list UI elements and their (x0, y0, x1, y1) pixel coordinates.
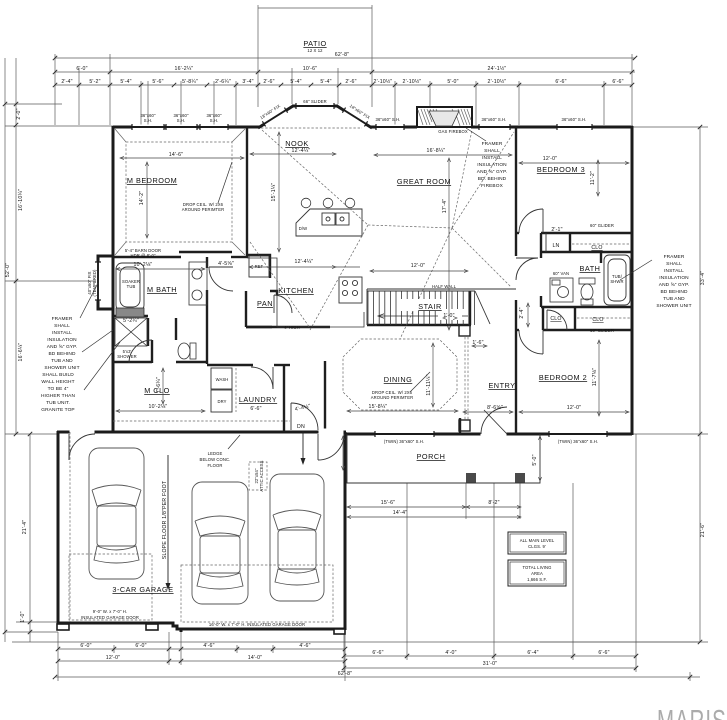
svg-text:8'-6⅝": 8'-6⅝" (487, 405, 503, 411)
bedroom3 window top (557, 125, 592, 130)
soaker tub (116, 263, 144, 311)
wall laundry top (207, 364, 253, 366)
leader drop ceil dining (410, 372, 430, 392)
svg-text:TUB AND: TUB AND (663, 296, 685, 302)
svg-text:DINING: DINING (384, 375, 413, 384)
M bedroom window 1 (132, 125, 164, 130)
svg-text:62'-8": 62'-8" (335, 52, 349, 58)
svg-text:33'-4": 33'-4" (700, 271, 706, 285)
svg-text:GREAT ROOM: GREAT ROOM (397, 177, 451, 186)
svg-text:BATH: BATH (580, 264, 601, 273)
porch slab edge (347, 434, 540, 483)
M bedroom tray corner diagonals (115, 129, 245, 255)
svg-text:4'-6": 4'-6" (299, 643, 310, 649)
hall/bedroom wing west wall (515, 127, 517, 256)
svg-text:12'-0": 12'-0" (543, 156, 557, 162)
svg-text:3'-4": 3'-4" (242, 79, 253, 85)
leader drop ceil M bedroom (218, 162, 232, 203)
svg-text:21'-4": 21'-4" (22, 520, 28, 534)
svg-text:INSTALL: INSTALL (664, 268, 684, 274)
wall M bath east (206, 257, 208, 268)
LN closet west wall (540, 233, 542, 252)
M bath vanity counter hatched (116, 308, 144, 317)
svg-text:FIREBOX: FIREBOX (481, 183, 503, 189)
garage bottom wall left section (57, 622, 170, 625)
laundry/mudroom bottom wall (garage top) (113, 431, 346, 434)
svg-text:FRAMER: FRAMER (52, 316, 73, 322)
svg-text:7'-6¼": 7'-6¼" (156, 377, 162, 393)
nook bay threshold dashed (261, 127, 362, 129)
svg-text:REF: REF (255, 264, 264, 269)
closet row1 front wall (541, 251, 632, 253)
svg-text:11'-7⅛": 11'-7⅛" (592, 368, 598, 387)
LN door arc (545, 233, 547, 252)
washer box (211, 368, 232, 389)
svg-text:24'-1½": 24'-1½" (488, 65, 507, 72)
wall M clo top (113, 361, 152, 363)
M clo door arc (129, 340, 152, 363)
svg-text:5'-4": 5'-4" (290, 79, 301, 85)
top extension verticals (54, 54, 56, 125)
top dim line tier3 (55, 84, 632, 86)
porch post left (466, 473, 476, 483)
car 3 (270, 474, 324, 601)
dining ceiling octagon (343, 339, 457, 410)
bottom wall of house (porch side) (345, 433, 632, 436)
svg-text:2'-6": 2'-6" (263, 79, 274, 85)
leader left note to tub window (80, 283, 98, 318)
fireplace bump-out hatched (417, 107, 472, 127)
dining twin window (bottom wall) (375, 432, 434, 437)
svg-text:TUB UNIT.: TUB UNIT. (46, 400, 70, 406)
wall openings (door gaps) (70, 429, 507, 438)
wall M bedroom / kitchen (246, 127, 248, 258)
top dim line 62'-8" (55, 57, 635, 59)
svg-text:HALF WALL: HALF WALL (432, 284, 457, 289)
garage left wall (57, 431, 60, 624)
top wall right section (471, 126, 633, 129)
bath north wall piece (540, 252, 542, 258)
patio right edge (371, 5, 373, 107)
slope floor arrow (166, 455, 171, 590)
svg-text:6'-6": 6'-6" (250, 406, 261, 412)
svg-text:9'-0" W. x 7'-0" H.: 9'-0" W. x 7'-0" H. (93, 609, 127, 614)
svg-text:AROUND PERIMTER: AROUND PERIMTER (371, 395, 413, 400)
right dim vertical 21'-6" (699, 434, 701, 642)
great room ridge lines (262, 130, 368, 225)
bath south wall (541, 306, 632, 308)
svg-text:GAS FIREBOX: GAS FIREBOX (438, 129, 468, 134)
bedroom3 south wall (516, 232, 519, 234)
right horizontal extension lines (632, 126, 708, 128)
svg-text:S.H.: S.H. (144, 118, 153, 123)
svg-text:6'-6": 6'-6" (598, 650, 609, 656)
right dim vertical 33'-4" (699, 127, 701, 434)
framer note firebox (477, 141, 507, 189)
kitchen half wall (246, 326, 330, 328)
porch post right (515, 473, 525, 483)
svg-text:2'-4": 2'-4" (519, 307, 525, 318)
svg-text:14'-2": 14'-2" (139, 191, 145, 205)
svg-text:14'-0": 14'-0" (248, 655, 262, 661)
svg-text:36"x60" S.H.: 36"x60" S.H. (376, 117, 401, 122)
entry column square bottom (459, 420, 470, 431)
top dim line tier2 (55, 71, 635, 73)
svg-text:AND ⅝" GYP.: AND ⅝" GYP. (659, 282, 689, 288)
svg-text:5'-2¼": 5'-2¼" (123, 318, 139, 324)
svg-text:60" GLIDER: 60" GLIDER (590, 328, 614, 333)
svg-text:INSULATED GARAGE DOOR: INSULATED GARAGE DOOR (81, 615, 139, 620)
garage house door leaf + arc (317, 434, 319, 460)
svg-text:LAUNDRY: LAUNDRY (239, 395, 277, 404)
svg-text:DN: DN (297, 424, 305, 430)
M bath door leaf + arc (209, 266, 233, 268)
svg-text:ENTRY: ENTRY (488, 381, 515, 390)
pantry door leaf + arc (273, 295, 275, 313)
svg-text:MARIS: MARIS (657, 703, 727, 720)
svg-text:BD. BEHIND: BD. BEHIND (478, 176, 507, 182)
pantry bottom wall (246, 326, 272, 328)
svg-text:2'-1": 2'-1" (551, 227, 562, 233)
wall toilet nook (175, 318, 177, 340)
bottom garage dim tier2 (58, 660, 345, 662)
garage door dashed rect left (69, 554, 152, 620)
svg-text:SHOWER: SHOWER (117, 354, 136, 359)
wall hall east / pantry west (245, 291, 247, 327)
stair rail diagonal (475, 291, 490, 324)
dryer box (211, 390, 232, 412)
svg-text:CLO: CLO (591, 245, 602, 251)
svg-text:12 X 12: 12 X 12 (307, 48, 323, 53)
svg-text:4'-5⅝": 4'-5⅝" (218, 261, 234, 267)
patio left edge (257, 5, 259, 107)
svg-text:60" GLIDER: 60" GLIDER (590, 223, 614, 228)
svg-text:INSTALL: INSTALL (52, 330, 72, 336)
bottom overall dim 62'-8" (55, 676, 700, 678)
svg-text:5'-0": 5'-0" (532, 454, 538, 465)
svg-text:16'-0" W. x 7'-0" H. INSULATED: 16'-0" W. x 7'-0" H. INSULATED GARAGE DO… (209, 622, 305, 627)
svg-text:S.H.: S.H. (177, 118, 186, 123)
nook bay right angled wall (337, 106, 372, 128)
svg-text:WASH: WASH (216, 377, 229, 382)
stair south wall (367, 324, 471, 326)
svg-text:SHWR: SHWR (610, 279, 623, 284)
garage service door leaf + arc (68, 434, 70, 460)
laundry door leaf + arc (272, 367, 274, 389)
garage door dashed rect right (181, 565, 333, 622)
bath west wall (540, 296, 542, 307)
kitchen island (296, 209, 362, 236)
svg-text:16'-10¼": 16'-10¼" (18, 189, 24, 211)
svg-text:1'-0": 1'-0" (20, 611, 26, 622)
svg-text:HDR @ 8'-0": HDR @ 8'-0" (130, 253, 156, 258)
svg-text:4' HIGH: 4' HIGH (284, 325, 299, 330)
closet row2 left door arc (546, 310, 548, 330)
bedroom3 door leaf + arc (542, 209, 544, 233)
wall vanity/toilet shelf (113, 315, 148, 317)
svg-text:SHOWER UNIT: SHOWER UNIT (656, 303, 691, 309)
svg-text:16'-8¼": 16'-8¼" (427, 148, 446, 154)
svg-text:HIGHER THAN: HIGHER THAN (41, 393, 75, 399)
front entry door leaf + arc (484, 410, 507, 434)
leader lines (80, 128, 652, 449)
M shower with X (115, 318, 147, 346)
svg-text:6'-0": 6'-0" (76, 66, 87, 72)
svg-text:10'-6": 10'-6" (303, 66, 317, 72)
svg-text:12'-4¼": 12'-4¼" (292, 148, 311, 154)
svg-text:INSULATION: INSULATION (477, 162, 507, 168)
svg-text:2'-6¼": 2'-6¼" (215, 79, 231, 85)
svg-text:6'-6": 6'-6" (372, 650, 383, 656)
svg-text:60" VAN: 60" VAN (553, 271, 569, 276)
M toilet (178, 343, 196, 359)
svg-text:BD BEHIND: BD BEHIND (660, 289, 687, 295)
svg-text:15'-6": 15'-6" (381, 500, 395, 506)
top wall center section (371, 126, 417, 129)
svg-text:BEDROOM 3: BEDROOM 3 (537, 165, 585, 174)
svg-text:AND ⅝" GYP.: AND ⅝" GYP. (477, 169, 507, 175)
svg-text:SHOWER UNIT: SHOWER UNIT (44, 365, 79, 371)
svg-text:PATIO: PATIO (303, 39, 326, 48)
svg-text:6'-0": 6'-0" (135, 643, 146, 649)
wall M bedroom bottom (113, 256, 181, 258)
svg-text:17'-4": 17'-4" (442, 199, 448, 213)
nook bay top wall (292, 105, 338, 108)
garage right wall (344, 432, 347, 630)
svg-text:2'-10½": 2'-10½" (403, 78, 422, 85)
svg-text:2'-10½": 2'-10½" (488, 78, 507, 85)
svg-text:6'-6": 6'-6" (555, 79, 566, 85)
bottom porch dim tier1 (344, 655, 636, 657)
svg-text:LN: LN (552, 243, 559, 249)
entry column square top (459, 325, 470, 336)
nook bay slider window (296, 104, 334, 109)
svg-text:SHALL: SHALL (666, 261, 682, 267)
svg-text:SHALL: SHALL (484, 148, 500, 154)
svg-text:TO BE 4": TO BE 4" (48, 386, 69, 392)
nook bay left angled wall (258, 106, 293, 128)
framer note left (41, 316, 80, 413)
svg-text:36"x60" S.H.: 36"x60" S.H. (562, 117, 587, 122)
svg-text:11'-2": 11'-2" (590, 171, 596, 185)
svg-text:12'-4¼": 12'-4¼" (295, 259, 314, 265)
svg-text:DRY: DRY (217, 399, 226, 404)
svg-text:6'-0": 6'-0" (80, 643, 91, 649)
svg-text:52'-0": 52'-0" (5, 263, 11, 277)
nook bay fix window right (angled) (342, 108, 367, 127)
svg-text:CLO: CLO (592, 317, 603, 323)
svg-text:STAIR: STAIR (418, 302, 441, 311)
bedroom2 door leaf + arc (542, 330, 544, 354)
svg-text:TUB: TUB (127, 284, 136, 289)
closet shelf dash row1 (572, 243, 630, 245)
svg-text:FRAMER: FRAMER (664, 254, 685, 260)
leader ledge note (228, 435, 240, 449)
pantry east jog (270, 291, 277, 295)
garage bottom wall right section (181, 628, 345, 631)
M bedroom tray rect (126, 142, 232, 242)
bath2 vanity (550, 278, 573, 302)
svg-text:(TWIN) 36"x60" S.H.: (TWIN) 36"x60" S.H. (384, 439, 424, 444)
bottom long baseline (12, 641, 700, 643)
svg-text:GRANITE TOP: GRANITE TOP (41, 407, 74, 413)
great room window left of fireplace (376, 125, 404, 130)
svg-text:SLOPE FLOOR 1/8"PER FOOT: SLOPE FLOOR 1/8"PER FOOT (162, 480, 168, 559)
left dim vertical 52'-0" (4, 58, 6, 642)
svg-text:S.H.: S.H. (210, 118, 219, 123)
M clo door leaf (151, 340, 153, 363)
svg-text:2'-4": 2'-4" (61, 79, 72, 85)
svg-text:6'-6": 6'-6" (612, 79, 623, 85)
svg-text:66" SLIDER: 66" SLIDER (303, 99, 326, 104)
bottom garage dim tier1 (58, 648, 345, 650)
svg-text:5'-4": 5'-4" (120, 79, 131, 85)
garage top wall (57, 431, 114, 434)
svg-text:BEDROOM 2: BEDROOM 2 (539, 373, 587, 382)
car 1 (89, 448, 144, 579)
svg-text:M BEDROOM: M BEDROOM (127, 176, 177, 185)
kitchen ceiling diagonal (250, 242, 310, 328)
svg-text:PAN: PAN (257, 299, 273, 308)
bath2 toilet (579, 278, 595, 305)
svg-text:1,666 S.F.: 1,666 S.F. (527, 577, 547, 582)
svg-text:14'-6": 14'-6" (169, 152, 183, 158)
svg-text:INSULATION: INSULATION (659, 275, 689, 281)
svg-text:15'-1¼": 15'-1¼" (271, 183, 277, 202)
svg-text:ALL MAIN LEVEL: ALL MAIN LEVEL (520, 538, 555, 543)
mudroom door leaf + arc (290, 403, 292, 430)
svg-text:5'-8¼": 5'-8¼" (182, 79, 198, 85)
svg-text:5'-0": 5'-0" (447, 79, 458, 85)
svg-text:12'-0": 12'-0" (567, 405, 581, 411)
svg-text:36"x60" S.H.: 36"x60" S.H. (482, 117, 507, 122)
left dim vertical 21'-4 (29, 434, 31, 642)
bedroom2 twin window (bottom wall) (549, 432, 607, 437)
svg-text:5'-2": 5'-2" (89, 79, 100, 85)
bottom porch dim tier2 31'-0" (344, 667, 636, 669)
M bath double vanity counter (189, 262, 207, 305)
svg-text:FLOOR: FLOOR (208, 463, 223, 468)
svg-text:AREA: AREA (531, 571, 543, 576)
tub fix window (left wall) (96, 262, 101, 300)
barn door panel (179, 251, 232, 253)
framer note right (656, 254, 691, 309)
svg-text:6'-4": 6'-4" (527, 650, 538, 656)
M bedroom window 3 (200, 125, 228, 130)
right exterior wall (631, 126, 634, 435)
garage ledge dashed (69, 432, 71, 622)
refrigerator (249, 256, 269, 277)
svg-text:TOTAL LIVING: TOTAL LIVING (522, 565, 551, 570)
kitchen stove (339, 277, 362, 303)
dining/entry dashed divider (464, 337, 466, 420)
REF nook walls (247, 255, 270, 278)
svg-text:5'-6": 5'-6" (152, 79, 163, 85)
nook bay fix window left (angled) (262, 108, 287, 127)
svg-text:(TWIN) 36"x60" S.H.: (TWIN) 36"x60" S.H. (558, 439, 598, 444)
svg-text:AND ⅝" GYP.: AND ⅝" GYP. (47, 344, 77, 350)
stair east wall (469, 291, 471, 325)
svg-text:3-CAR GARAGE: 3-CAR GARAGE (112, 585, 173, 594)
svg-text:WALL HEIGHT: WALL HEIGHT (41, 379, 74, 385)
svg-text:KITCHEN: KITCHEN (278, 286, 314, 295)
svg-text:10'-2⅛": 10'-2⅛" (149, 404, 168, 410)
patio top edge (258, 7, 372, 9)
kitchen counter lines (247, 258, 364, 327)
svg-text:BD BEHIND: BD BEHIND (48, 351, 75, 357)
svg-text:2'-10½": 2'-10½" (374, 78, 393, 85)
svg-text:FRAMER: FRAMER (482, 141, 503, 147)
great room window right of fireplace (479, 125, 510, 130)
svg-text:D/W: D/W (299, 226, 307, 231)
MARIS watermark (657, 703, 727, 720)
stair top half wall (367, 288, 516, 290)
svg-text:INSTALL: INSTALL (482, 155, 502, 161)
stair text pockets and up line (378, 299, 468, 320)
LN closet east wall (569, 233, 571, 252)
svg-text:4'-0": 4'-0" (445, 650, 456, 656)
stair left end (366, 289, 368, 325)
garage door jamb blocks (57, 624, 69, 630)
leader firebox note (466, 128, 486, 141)
M bedroom window 2 (166, 125, 197, 130)
closet row2 west wall (542, 307, 544, 330)
left dim vertical 16'-10 / 16'-6 (15, 58, 17, 434)
svg-text:15'-8¼": 15'-8¼" (369, 404, 388, 410)
svg-text:12'-0": 12'-0" (411, 263, 425, 269)
svg-text:BELOW CONC.: BELOW CONC. (200, 457, 231, 462)
svg-text:14'-4": 14'-4" (393, 510, 407, 516)
leader right note to tub (620, 260, 652, 280)
wall mudroom east (324, 361, 326, 431)
svg-text:CLO: CLO (550, 316, 561, 322)
svg-text:16'-6¼": 16'-6¼" (18, 343, 24, 362)
svg-text:(TEMPERED): (TEMPERED) (92, 269, 97, 297)
tub west wall (600, 253, 602, 263)
svg-text:8'-2": 8'-2" (488, 500, 499, 506)
wash/dry closet dashed front (235, 368, 237, 412)
closet row2 front wall (543, 329, 632, 331)
hall bath door leaf + arc (516, 257, 538, 259)
bath2 tub/shower (604, 255, 630, 305)
svg-text:TUB AND: TUB AND (51, 358, 73, 364)
svg-text:5'-4": 5'-4" (320, 79, 331, 85)
svg-text:INSULATION: INSULATION (47, 337, 77, 343)
svg-text:M BATH: M BATH (147, 285, 177, 294)
wall laundry east (283, 365, 285, 432)
svg-text:2'-6": 2'-6" (345, 79, 356, 85)
left horizontal extension lines (5, 103, 62, 105)
bottom extension verticals (57, 632, 59, 681)
car 2 (192, 482, 248, 604)
svg-text:21'-6": 21'-6" (700, 523, 706, 537)
svg-text:2'-0": 2'-0" (16, 108, 22, 119)
svg-text:12'-0": 12'-0" (106, 655, 120, 661)
svg-text:AROUND PERIMTER: AROUND PERIMTER (182, 207, 224, 212)
house left exterior wall (112, 126, 115, 433)
svg-text:NOOK: NOOK (285, 139, 309, 148)
DN arrow to basement (301, 431, 306, 465)
svg-text:LEDGE: LEDGE (208, 451, 223, 456)
closet shelf dash row2 (577, 317, 630, 319)
bedroom2 north wall (516, 329, 519, 331)
garage bottom wall step (169, 623, 181, 632)
svg-text:SHALL: SHALL (54, 323, 70, 329)
attic access dashed rect (249, 462, 267, 490)
svg-text:CLGS. 9': CLGS. 9' (528, 544, 546, 549)
tub bump-out left wall (98, 256, 113, 309)
closet row2 divider (574, 307, 576, 330)
